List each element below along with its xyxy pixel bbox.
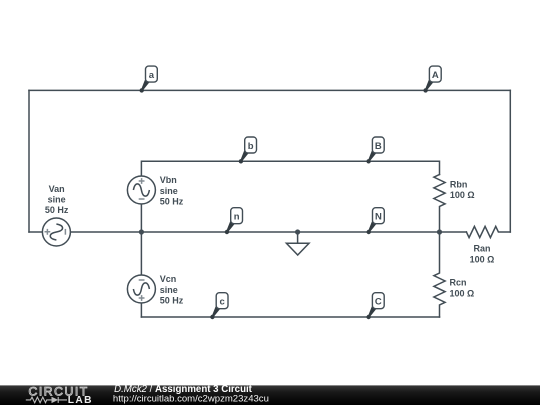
svg-text:100 Ω: 100 Ω [450,190,475,200]
svg-text:http://circuitlab.com/c2wpzm23: http://circuitlab.com/c2wpzm23z43cu [113,393,269,404]
svg-text:100 Ω: 100 Ω [470,254,495,264]
node flag C [366,293,384,319]
svg-text:Rbn: Rbn [450,180,468,190]
node flag a [140,66,158,93]
wire Vcn top stem [140,232,142,275]
svg-text:sine: sine [160,285,178,295]
voltage source Vbn [127,176,155,204]
node flag B [366,137,384,164]
svg-text:50 Hz: 50 Hz [160,296,184,306]
node flag c [210,293,228,319]
junction at Vbn/Vcn stem and neutral wire [139,229,144,234]
wire left vertical [28,90,30,232]
label Rbn [450,180,475,200]
resistor Ran [466,226,510,237]
svg-text:sine: sine [160,186,178,196]
label Vcn [160,274,184,305]
svg-text:Vbn: Vbn [160,175,177,185]
ground [286,232,309,255]
wire right vertical [509,90,511,232]
node flag A [423,66,441,93]
wire b-B horizontal [141,161,439,176]
wire middle left (to Van) [29,231,42,233]
svg-text:N: N [375,212,382,223]
node flag n [225,208,243,235]
svg-text:Vcn: Vcn [160,274,177,284]
svg-text:LAB: LAB [68,395,93,405]
svg-text:50 Hz: 50 Hz [45,205,69,215]
svg-text:A: A [432,70,439,81]
svg-text:Ran: Ran [473,243,490,253]
node flag N [367,208,385,235]
voltage source Vcn [127,275,155,303]
svg-text:Van: Van [49,184,65,194]
resistor Rcn [434,232,445,317]
CircuitLab logo [26,384,93,405]
svg-text:100 Ω: 100 Ω [450,289,475,299]
svg-text:50 Hz: 50 Hz [160,197,184,207]
node flag b [239,137,257,164]
wire top a-A [29,89,510,91]
svg-text:sine: sine [48,195,66,205]
svg-text:b: b [248,141,254,152]
svg-text:n: n [234,212,240,223]
junction at ground tap [295,229,300,234]
voltage source Van [42,218,70,246]
svg-text:C: C [375,297,382,308]
resistor Rbn [434,175,445,233]
junction at Rbn/Rcn/Ran node [437,229,442,234]
wire bottom c-C [141,316,439,318]
wire middle n-N [70,231,466,233]
wire Vbn bottom stem [140,204,142,232]
label Van [45,184,69,215]
svg-text:B: B [375,141,382,152]
label Rcn [450,278,475,299]
label Vbn [160,175,184,206]
svg-text:c: c [219,297,224,308]
label Ran [470,243,495,264]
wire Vcn bottom stem to bottom wire [140,303,142,317]
svg-text:Rcn: Rcn [450,278,467,288]
svg-text:a: a [149,70,155,81]
